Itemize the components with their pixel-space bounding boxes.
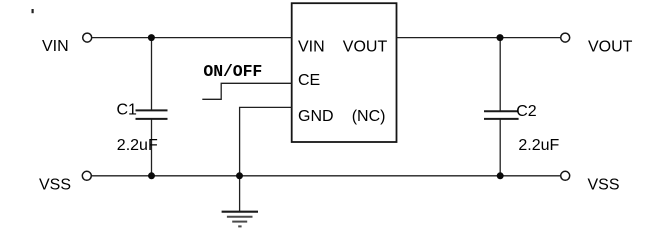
svg-text:VIN: VIN	[42, 38, 69, 55]
svg-text:C1: C1	[117, 101, 138, 118]
svg-text:C2: C2	[516, 103, 537, 120]
svg-text:CE: CE	[298, 72, 320, 89]
svg-text:VSS: VSS	[39, 177, 71, 194]
svg-text:VIN: VIN	[298, 38, 325, 55]
svg-text:(NC): (NC)	[352, 108, 386, 125]
svg-text:2.2uF: 2.2uF	[518, 137, 559, 154]
svg-text:2.2uF: 2.2uF	[117, 137, 158, 154]
svg-text:VOUT: VOUT	[588, 38, 633, 55]
svg-text:ON/OFF: ON/OFF	[203, 62, 262, 81]
svg-text:VOUT: VOUT	[343, 38, 388, 55]
svg-text:VSS: VSS	[588, 177, 620, 194]
svg-text:GND: GND	[298, 108, 334, 125]
